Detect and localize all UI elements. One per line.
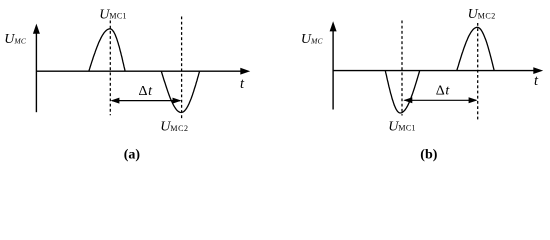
y-axis arrowhead (b) — [330, 21, 337, 31]
y-axis arrowhead (a) — [33, 24, 40, 34]
x-axis (b) — [333, 70, 535, 72]
positive pulse (a) — [89, 29, 125, 71]
diagram (b) — [330, 21, 544, 121]
svg-text:Δt: Δt — [139, 84, 154, 99]
diagram (a) — [33, 17, 250, 121]
dashed line 1 (a) — [109, 21, 111, 116]
dashed line 2 (b) — [477, 23, 479, 120]
delta-t arrow (a) — [112, 100, 180, 102]
x-axis arrowhead (b) — [533, 67, 543, 74]
negative pulse (a) — [161, 71, 199, 112]
x-axis (a) — [36, 70, 242, 72]
svg-text:(a): (a) — [124, 147, 141, 162]
delta-t arrow (b) — [405, 99, 477, 101]
svg-text:Δt: Δt — [436, 84, 451, 99]
x-axis arrowhead (a) — [240, 68, 250, 75]
positive pulse (b) — [457, 27, 494, 70]
svg-text:(b): (b) — [420, 148, 437, 163]
dashed line 1 (b) — [401, 21, 403, 116]
y-axis (a) — [35, 30, 37, 112]
negative pulse (b) — [385, 71, 419, 113]
dashed line 2 (a) — [181, 17, 183, 121]
y-axis (b) — [332, 28, 334, 110]
